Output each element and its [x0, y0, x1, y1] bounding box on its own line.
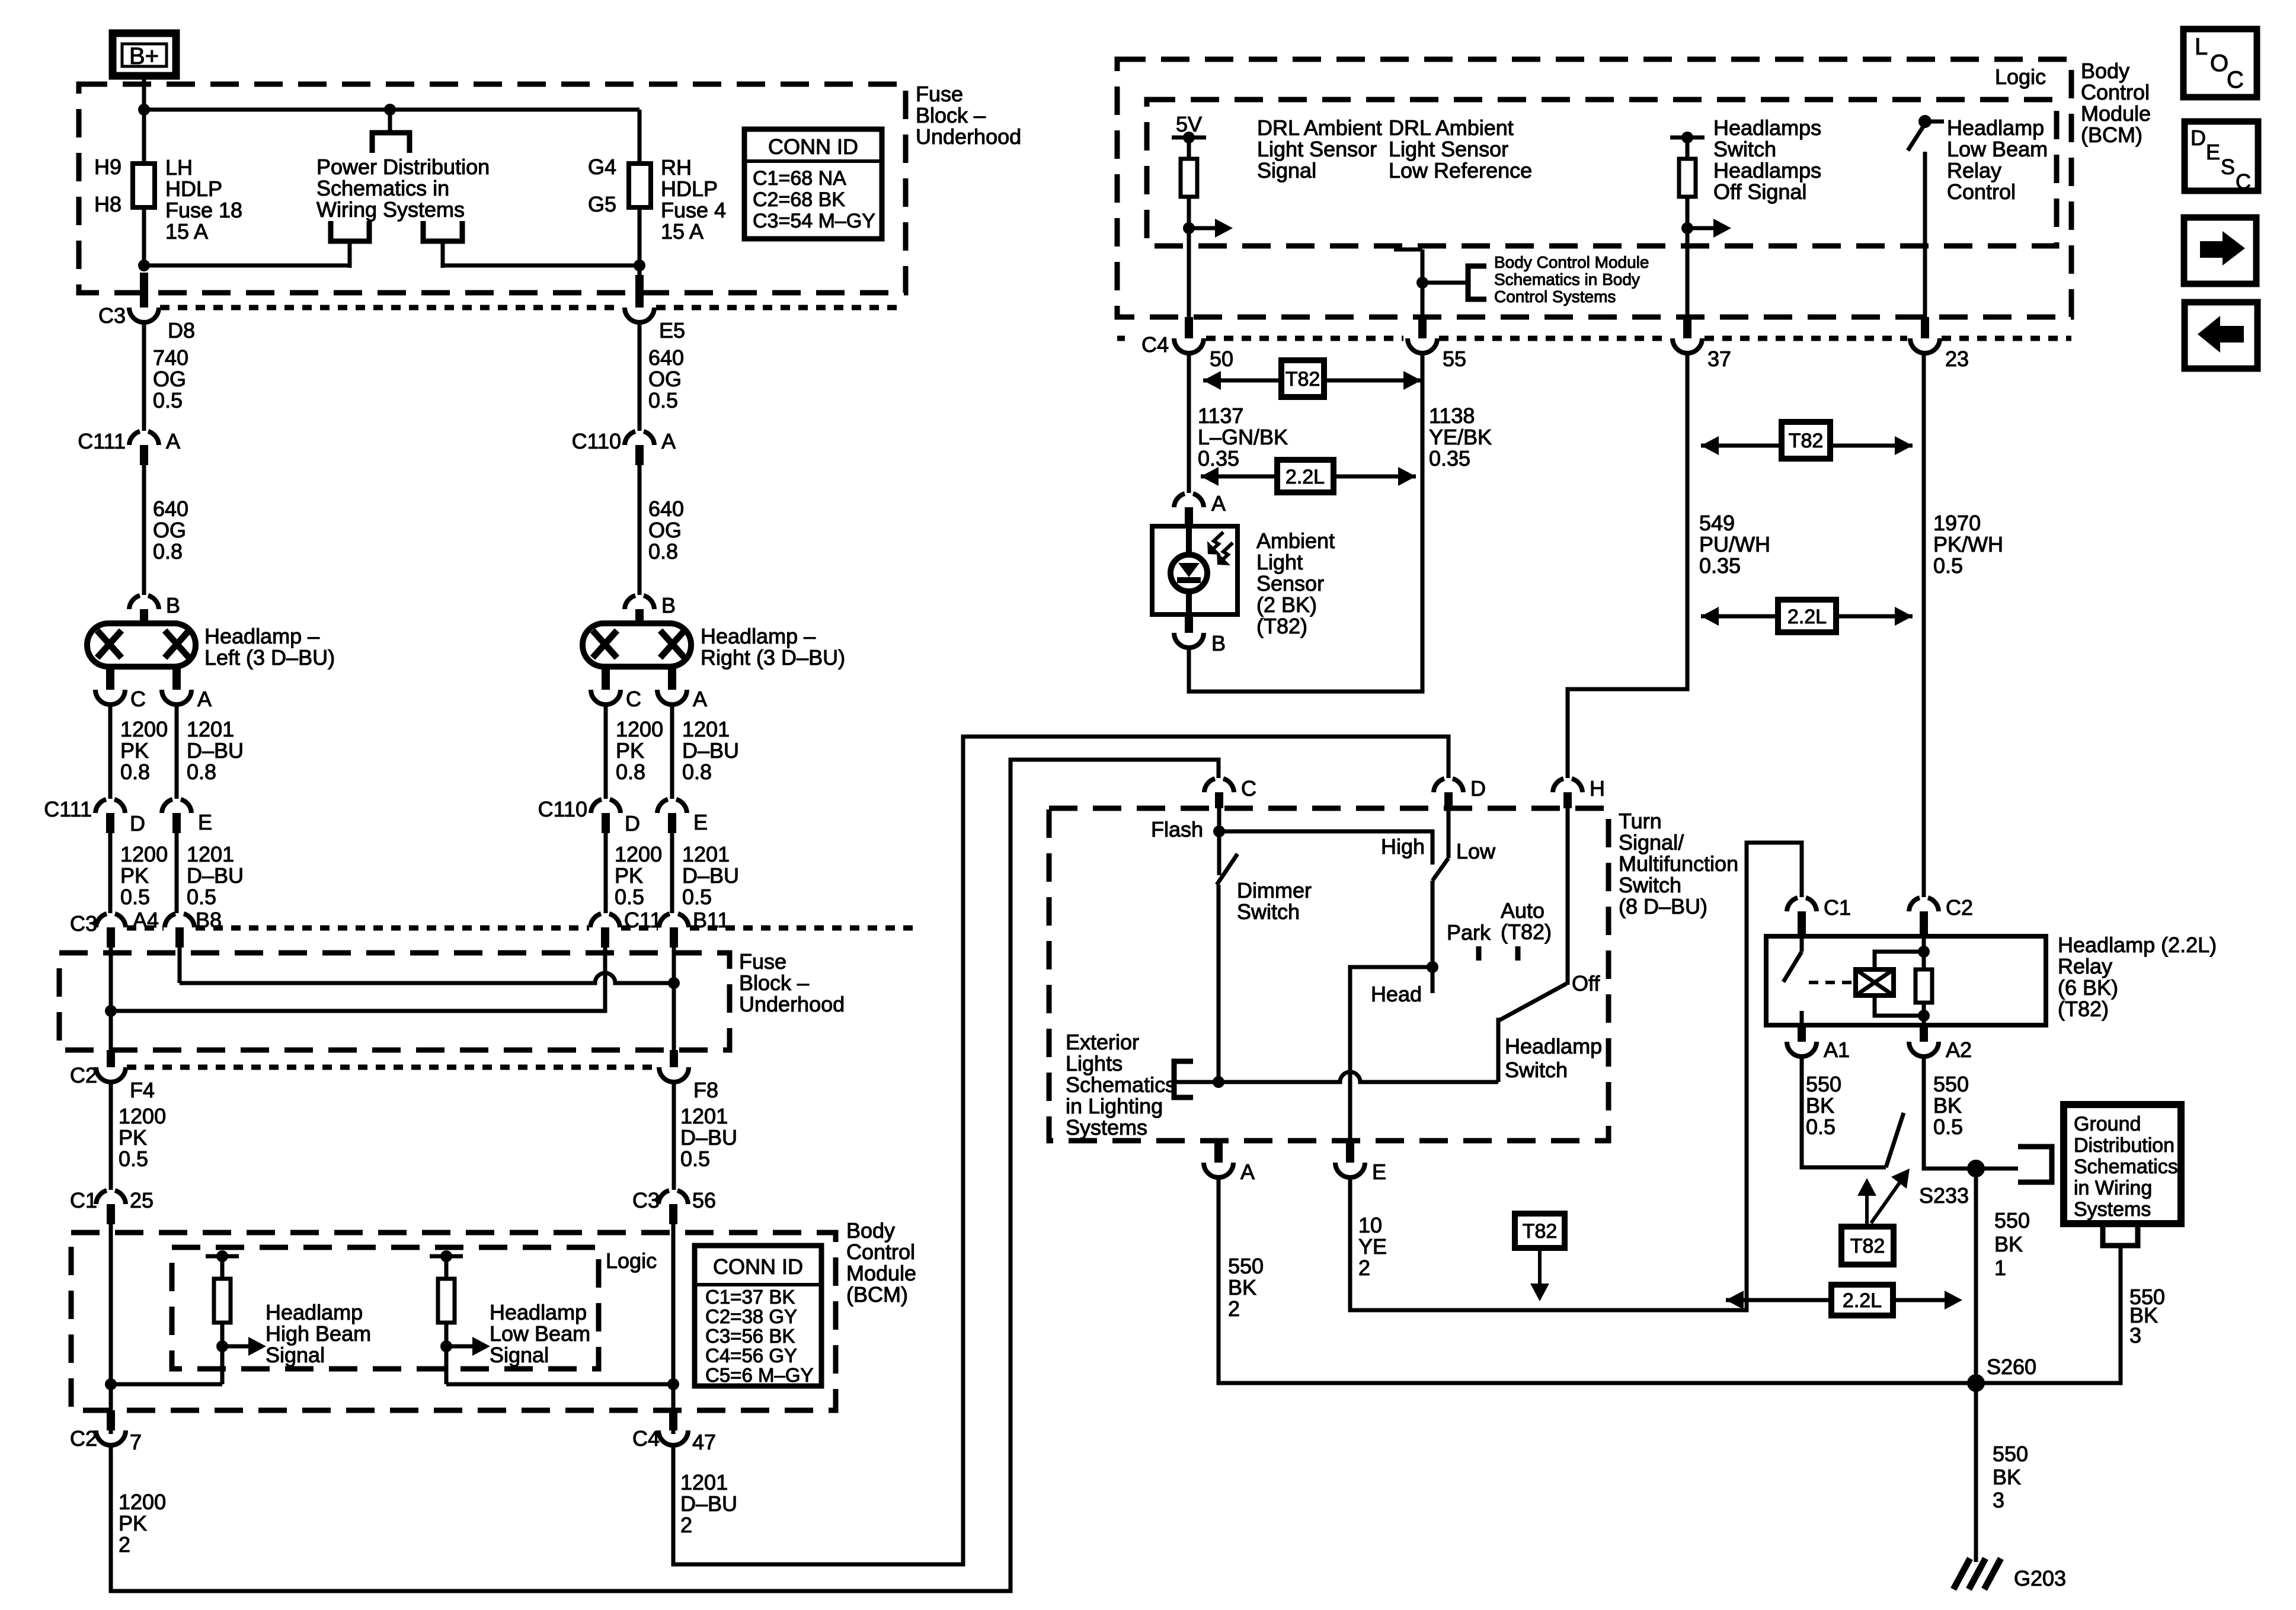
svg-text:25: 25: [130, 1188, 154, 1212]
svg-text:2.2L: 2.2L: [1843, 1289, 1882, 1312]
wire resistor down: [220, 1323, 225, 1384]
fuse LH HDLP Fuse 18 15A: [133, 164, 155, 207]
svg-text:A1: A1: [1824, 1038, 1850, 1062]
contact auto tick: [1515, 946, 1521, 961]
svg-text:Signal: Signal: [266, 1343, 325, 1367]
junction dot LH fuse bottom: [138, 260, 150, 271]
svg-text:D–BU: D–BU: [187, 738, 244, 763]
conn id table fuse block underhood: [744, 129, 882, 239]
svg-text:T82: T82: [1850, 1235, 1885, 1257]
off-page bracket ground distribution (right): [2018, 1147, 2052, 1182]
junction dot RH fuse bottom: [634, 260, 645, 271]
svg-text:0.5: 0.5: [682, 885, 712, 909]
svg-text:Auto: Auto: [1501, 898, 1544, 923]
svg-text:Low: Low: [1456, 839, 1496, 863]
svg-text:HDLP: HDLP: [165, 177, 222, 201]
svg-text:B: B: [1211, 631, 1226, 655]
connector B11: [659, 914, 670, 927]
wire 1200 PK 2 from C2-7 to dimmer C: [111, 760, 1219, 1591]
svg-text:E: E: [198, 810, 212, 834]
connector C3 pin 56: [658, 1190, 669, 1204]
harness range arrow T82 (switch): [1701, 436, 1719, 455]
svg-text:C2: C2: [70, 1426, 97, 1451]
svg-text:550: 550: [1993, 1442, 2028, 1466]
wire C111-D down: [108, 833, 113, 913]
svg-text:Fuse: Fuse: [916, 82, 963, 106]
pin stub right lamp A: [668, 667, 676, 690]
connector C3 cavity A4: [96, 914, 107, 927]
svg-text:O: O: [2210, 50, 2228, 76]
svg-text:Head: Head: [1371, 982, 1422, 1006]
svg-text:Block –: Block –: [916, 103, 986, 127]
node 5V supply bar: [1172, 136, 1206, 140]
svg-text:YE/BK: YE/BK: [1429, 425, 1492, 449]
svg-text:0.35: 0.35: [1699, 553, 1741, 578]
connector relay C1: [1787, 898, 1798, 911]
nav box arrow left: [2185, 302, 2257, 369]
svg-text:CONN ID: CONN ID: [713, 1254, 803, 1279]
connector C110 cavity D: [591, 799, 602, 813]
svg-text:PK: PK: [120, 738, 149, 763]
svg-text:C: C: [626, 687, 641, 711]
svg-text:2.2L: 2.2L: [1285, 466, 1325, 488]
dotted connector face line C3 A4/B8 to C11/B11: [127, 926, 164, 931]
svg-text:Ground: Ground: [2074, 1113, 2141, 1135]
svg-text:D–BU: D–BU: [680, 1125, 737, 1150]
wire S260 to G203: [1974, 1383, 1978, 1562]
switch blade dimmer: [1217, 854, 1237, 885]
svg-text:HDLP: HDLP: [661, 177, 718, 201]
svg-text:0.8: 0.8: [616, 760, 645, 784]
svg-text:in Wiring: in Wiring: [2074, 1177, 2152, 1199]
svg-text:640: 640: [648, 345, 684, 370]
svg-text:G5: G5: [588, 192, 616, 216]
svg-text:CONN ID: CONN ID: [768, 135, 858, 159]
svg-text:S: S: [2221, 155, 2235, 179]
svg-text:Signal: Signal: [1257, 158, 1316, 183]
node relay control contact: [1925, 120, 1944, 124]
svg-text:0.5: 0.5: [120, 885, 150, 909]
svg-text:H9: H9: [94, 155, 121, 179]
svg-text:Switch: Switch: [1237, 900, 1300, 924]
svg-text:7: 7: [130, 1430, 142, 1454]
svg-text:Lights: Lights: [1066, 1051, 1123, 1076]
svg-text:56: 56: [692, 1188, 716, 1212]
wire bar to resistor: [1686, 137, 1690, 159]
wire lamp-right C down: [604, 704, 608, 799]
svg-text:0.5: 0.5: [1933, 553, 1963, 578]
svg-text:Headlamps: Headlamps: [1713, 116, 1821, 140]
harness range arrow 2.2L (ground): [1726, 1291, 1744, 1310]
svg-text:BK: BK: [1993, 1465, 2021, 1489]
svg-text:37: 37: [1707, 347, 1731, 371]
svg-text:0.5: 0.5: [680, 1147, 710, 1171]
svg-text:Logic: Logic: [1995, 65, 2046, 89]
svg-text:Body: Body: [846, 1218, 895, 1243]
connector relay C2: [1909, 898, 1920, 911]
harness range arrow 2.2L (relay): [1701, 607, 1719, 626]
svg-text:1201: 1201: [680, 1104, 728, 1128]
svg-text:LH: LH: [165, 155, 193, 180]
svg-text:B: B: [166, 593, 180, 617]
junction dot B11 bus: [668, 977, 680, 989]
svg-text:B: B: [661, 593, 676, 617]
svg-text:Headlamps: Headlamps: [1713, 158, 1821, 183]
wire sensor B to pin 55: [1189, 353, 1422, 692]
svg-text:640: 640: [153, 497, 188, 521]
svg-text:Dimmer: Dimmer: [1237, 878, 1312, 902]
wire bar to resistor: [445, 1256, 449, 1279]
splice slash S233: [1886, 1113, 1904, 1167]
relay actuation dashed link: [1809, 981, 1854, 984]
contact head: [1431, 967, 1435, 993]
wire LH fuse bottom to bracket: [144, 207, 350, 265]
svg-text:Flash: Flash: [1151, 817, 1203, 841]
svg-text:1200: 1200: [119, 1490, 166, 1514]
arrow headlamp high beam signal: [222, 1345, 248, 1349]
svg-text:Headlamp: Headlamp: [490, 1300, 587, 1324]
wire flash to high contact: [1219, 831, 1432, 865]
arrow headlamp low beam signal: [446, 1345, 472, 1349]
svg-text:Wiring Systems: Wiring Systems: [316, 197, 465, 222]
junction dot coil bottom: [1918, 1010, 1930, 1022]
battery feed B+ symbol: [113, 33, 176, 76]
wire tap down to bracket: [388, 110, 392, 133]
svg-text:C: C: [2236, 169, 2251, 194]
svg-text:B11: B11: [693, 908, 729, 932]
wire C1-25 into BCM: [109, 1224, 113, 1434]
junction dot head node: [1427, 961, 1438, 973]
svg-text:Fuse: Fuse: [739, 949, 786, 974]
svg-text:Schematics: Schematics: [1066, 1073, 1176, 1097]
node high beam driver top bar: [206, 1254, 239, 1259]
relay switch contact: [1800, 936, 1804, 952]
svg-text:Logic: Logic: [606, 1249, 657, 1273]
svg-text:50: 50: [1210, 347, 1233, 371]
svg-text:Headlamp: Headlamp: [1947, 116, 2044, 140]
svg-text:Schematics in: Schematics in: [316, 176, 449, 200]
svg-text:C3: C3: [70, 911, 97, 936]
wire RH bracket to RH fuse wire: [443, 264, 639, 268]
svg-text:(8 D–BU): (8 D–BU): [1619, 894, 1707, 918]
svg-text:A: A: [661, 429, 676, 453]
svg-text:Schematics: Schematics: [2074, 1156, 2178, 1178]
junction dot coil top: [1918, 946, 1930, 958]
svg-text:C3=54 M–GY: C3=54 M–GY: [753, 210, 875, 232]
wire C110-D down: [604, 833, 608, 913]
svg-text:A: A: [1211, 491, 1226, 516]
harness range arrow T82 (sensor): [1203, 371, 1221, 390]
connector C4 pin 47: [669, 1410, 677, 1430]
svg-text:D–BU: D–BU: [187, 863, 244, 888]
connector C4 pin 50: [1185, 317, 1193, 338]
wire C3-D8 to C111: [142, 322, 146, 431]
svg-text:A2: A2: [1946, 1038, 1972, 1062]
svg-text:Switch: Switch: [1505, 1058, 1568, 1082]
connector C1 pin 25: [96, 1190, 107, 1204]
nav box arrow right: [2184, 217, 2256, 284]
connector relay A2: [1920, 1025, 1928, 1042]
dashed box Logic (top): [1147, 100, 2057, 246]
wire B8 down: [178, 948, 182, 983]
wire to BCM schematics bracket: [1422, 281, 1468, 285]
svg-text:C110: C110: [572, 429, 621, 453]
svg-text:L: L: [2195, 34, 2208, 60]
connector E5: [635, 275, 644, 308]
svg-text:0.8: 0.8: [120, 760, 150, 784]
wire lamp-right A down: [670, 704, 674, 799]
svg-text:C111: C111: [44, 797, 92, 821]
svg-text:Control: Control: [2081, 80, 2150, 104]
svg-text:T82: T82: [1789, 430, 1824, 452]
connector C4 pin 23: [1921, 317, 1929, 338]
pin stub left lamp A: [172, 667, 181, 690]
svg-text:640: 640: [648, 497, 684, 521]
svg-text:10: 10: [1358, 1213, 1382, 1237]
svg-text:Off: Off: [1572, 971, 1600, 996]
wire pin 50 to sensor A: [1187, 353, 1191, 493]
svg-text:Headlamp: Headlamp: [1505, 1034, 1602, 1058]
svg-text:Light Sensor: Light Sensor: [1389, 137, 1508, 161]
connector multifunction switch cavity E: [1346, 1141, 1354, 1163]
junction dot high-beam signal bus: [105, 1378, 117, 1390]
svg-text:C1: C1: [1824, 895, 1851, 920]
svg-text:Multifunction: Multifunction: [1619, 852, 1738, 876]
wire B11 down through fuse block: [672, 948, 676, 1050]
harness code T82 (splice): [1841, 1227, 1894, 1265]
svg-text:0.5: 0.5: [153, 388, 183, 412]
svg-text:C4: C4: [1141, 332, 1169, 357]
wire A4 down through fuse block: [109, 948, 113, 1050]
svg-text:BK: BK: [1228, 1275, 1256, 1299]
ground G203: [1953, 1558, 1970, 1589]
svg-text:550: 550: [1228, 1254, 1264, 1278]
svg-text:Low Reference: Low Reference: [1389, 158, 1532, 183]
dashed box Body Control Module (lower): [71, 1233, 836, 1410]
svg-text:55: 55: [1443, 347, 1466, 371]
svg-text:Fuse 4: Fuse 4: [661, 198, 726, 222]
node headlamps-off bar: [1670, 136, 1705, 140]
off-page bracket exterior lights: [1174, 1061, 1193, 1097]
harness code T82 (headlamp switch wire): [1515, 1214, 1565, 1248]
junction dot S233: [1967, 1160, 1985, 1177]
svg-text:C3: C3: [98, 303, 126, 328]
svg-text:Signal: Signal: [490, 1343, 549, 1367]
off-page bracket from RH fuse (up): [423, 221, 462, 241]
svg-text:Body: Body: [2081, 59, 2129, 83]
svg-text:C2: C2: [70, 1063, 97, 1087]
svg-text:DRL Ambient: DRL Ambient: [1389, 116, 1514, 140]
svg-text:Relay: Relay: [2058, 954, 2112, 978]
conn id table BCM: [695, 1246, 821, 1386]
svg-text:1200: 1200: [616, 717, 663, 741]
svg-text:2: 2: [119, 1532, 130, 1557]
wire RH branch down from bus: [638, 110, 642, 164]
off-page bracket to Power Distribution (down): [372, 133, 410, 153]
svg-text:Relay: Relay: [1947, 158, 2001, 183]
arrow DRL ambient light sensor signal: [1189, 226, 1215, 231]
junction dot low reference: [1416, 277, 1428, 289]
svg-text:Signal/: Signal/: [1619, 830, 1684, 854]
svg-text:0.5: 0.5: [187, 885, 216, 909]
svg-text:Power Distribution: Power Distribution: [316, 155, 490, 179]
svg-text:OG: OG: [648, 367, 682, 391]
svg-text:(T82): (T82): [1256, 614, 1307, 638]
svg-text:PK: PK: [120, 863, 149, 888]
svg-text:15 A: 15 A: [661, 219, 703, 244]
wire cavity E to relay C1: [1350, 843, 1802, 1310]
svg-text:Schematics in Body: Schematics in Body: [1494, 270, 1640, 289]
svg-text:0.5: 0.5: [1933, 1115, 1963, 1139]
svg-text:1200: 1200: [615, 842, 662, 866]
wire bar to resistor: [220, 1256, 225, 1279]
wire C3-56 into BCM: [671, 1224, 676, 1434]
wire S233 to S260: [1974, 1176, 1978, 1383]
svg-text:Park: Park: [1447, 920, 1491, 945]
contact park tick: [1476, 946, 1482, 961]
off-page bracket BCM schematics: [1468, 266, 1486, 299]
svg-text:C2: C2: [1946, 895, 1973, 920]
svg-text:C110: C110: [538, 797, 587, 821]
svg-text:High: High: [1381, 834, 1425, 859]
svg-text:High Beam: High Beam: [266, 1321, 371, 1346]
svg-text:D: D: [130, 811, 145, 836]
svg-text:D: D: [1470, 776, 1486, 801]
dashed box Fuse Block - Underhood (lower): [59, 953, 730, 1050]
svg-text:PK: PK: [615, 863, 643, 888]
svg-text:0.35: 0.35: [1429, 446, 1470, 470]
svg-text:H: H: [1590, 776, 1605, 801]
wire S233 to ground distribution bracket: [1976, 1167, 2018, 1171]
wire bracket stem to RH fuse bus: [441, 241, 445, 268]
svg-text:1200: 1200: [119, 1104, 166, 1128]
wire relay A2 to S233: [1924, 1056, 1968, 1169]
svg-text:PK: PK: [119, 1511, 147, 1535]
svg-text:G4: G4: [588, 155, 616, 179]
svg-text:L–GN/BK: L–GN/BK: [1198, 425, 1288, 449]
wire lamp C down: [108, 704, 113, 799]
connector C110 cavity E: [657, 799, 668, 813]
connector C4 pin 37: [1683, 317, 1691, 338]
svg-text:0.5: 0.5: [615, 885, 644, 909]
svg-text:2: 2: [680, 1513, 692, 1537]
relay coil box: [1856, 969, 1894, 996]
svg-text:D: D: [2191, 126, 2206, 150]
wire lamp A down: [175, 704, 179, 799]
connector multifunction switch cavity C: [1204, 779, 1215, 792]
connector C110 cavity A: [625, 431, 635, 445]
svg-text:DRL Ambient: DRL Ambient: [1257, 116, 1382, 140]
svg-text:D–BU: D–BU: [682, 863, 739, 888]
svg-text:47: 47: [692, 1430, 716, 1454]
switch blade low: [1432, 858, 1448, 881]
junction dot low beam signal: [440, 1340, 452, 1352]
dashed box Body Control Module (top): [1117, 59, 2071, 317]
svg-text:Distribution: Distribution: [2074, 1134, 2175, 1157]
svg-text:C5=6 M–GY: C5=6 M–GY: [705, 1364, 814, 1386]
resistor headlamp low beam signal: [438, 1279, 455, 1323]
svg-text:1137: 1137: [1198, 404, 1243, 428]
wire RH fuse bottom down: [638, 207, 642, 275]
fuse RH HDLP Fuse 4 15A: [629, 164, 651, 207]
svg-text:F4: F4: [130, 1078, 155, 1102]
svg-text:Turn: Turn: [1619, 809, 1662, 833]
wire pin 55 low reference: [1421, 249, 1425, 324]
connector C3 cavity D8: [140, 273, 148, 308]
svg-text:E: E: [2206, 140, 2220, 164]
svg-text:2.2L: 2.2L: [1787, 606, 1827, 628]
svg-text:Sensor: Sensor: [1256, 571, 1324, 596]
wire C110 to headlamp right B: [638, 465, 642, 595]
wire headlamp switch common with hop: [1174, 1072, 1498, 1082]
svg-text:H8: H8: [94, 192, 121, 216]
junction dot high beam signal: [216, 1340, 228, 1352]
connector cup lamp-left A: [162, 690, 191, 705]
connector C4 pin 55: [1418, 317, 1427, 338]
svg-text:D–BU: D–BU: [680, 1491, 737, 1516]
wire low-beam branch to C3-56 wire: [446, 1382, 673, 1387]
svg-text:Left (3 D–BU): Left (3 D–BU): [204, 645, 335, 670]
svg-text:BK: BK: [1994, 1232, 2023, 1256]
relay box headlamp relay: [1766, 936, 2046, 1025]
wire relay C2 internal: [1922, 936, 1926, 969]
svg-text:1200: 1200: [120, 717, 168, 741]
wire C111-E down: [175, 833, 179, 913]
svg-text:0.35: 0.35: [1198, 446, 1239, 470]
svg-text:D8: D8: [168, 318, 195, 343]
svg-text:C: C: [1241, 776, 1256, 801]
lamp Headlamp - Left: [87, 623, 196, 667]
resistor headlamps switch off signal: [1679, 159, 1696, 197]
connector C3 cavity B8: [165, 914, 175, 927]
ambient light sensor box: [1152, 526, 1237, 614]
svg-text:Light Sensor: Light Sensor: [1257, 137, 1377, 161]
relay suppression resistor: [1916, 969, 1932, 1003]
pin stub right lamp C: [602, 667, 610, 690]
junction dot dimmer common: [1213, 1076, 1224, 1088]
wire dimmer D to low blade: [1447, 808, 1451, 858]
dotted connector face line C2 F4/F8: [127, 1065, 658, 1070]
nav box DESC: [2185, 121, 2258, 191]
wire B+ down to fuse H9: [142, 76, 146, 164]
wire high-beam branch to C1 wire: [111, 1382, 222, 1387]
wire 5V to resistor: [1187, 137, 1191, 159]
wire E5 to C110: [638, 322, 642, 431]
svg-text:C1: C1: [70, 1188, 97, 1212]
svg-text:C1=68 NA: C1=68 NA: [753, 167, 846, 190]
junction dot S260: [1967, 1374, 1985, 1392]
wire B8 bus to B11 with hop: [180, 973, 674, 983]
svg-text:(T82): (T82): [2058, 997, 2109, 1021]
svg-text:OG: OG: [648, 518, 682, 542]
connector ambient light sensor cavity B: [1185, 616, 1193, 633]
svg-text:Exterior: Exterior: [1066, 1030, 1139, 1054]
wire F4 to C1-25: [109, 1082, 113, 1190]
svg-text:Module: Module: [846, 1261, 916, 1285]
svg-text:2: 2: [1228, 1297, 1240, 1321]
svg-text:1970: 1970: [1933, 511, 1981, 535]
svg-text:D–BU: D–BU: [682, 738, 739, 763]
resistor DRL ambient light sensor pull-up: [1181, 159, 1197, 197]
svg-text:Systems: Systems: [2074, 1198, 2151, 1221]
svg-text:C11: C11: [624, 908, 661, 932]
svg-text:T82: T82: [1523, 1220, 1558, 1243]
wire multifunction H to off contact: [1566, 808, 1570, 985]
wire resistor to pin 37: [1686, 197, 1690, 324]
svg-text:Off Signal: Off Signal: [1713, 180, 1806, 204]
connector relay A1: [1798, 1025, 1806, 1042]
wire pin 23 to relay C2: [1922, 353, 1926, 897]
